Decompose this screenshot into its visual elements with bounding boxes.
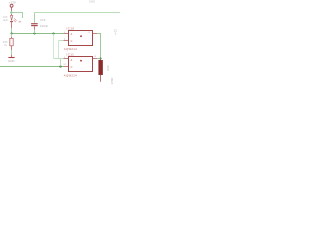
resistor R16 body (99, 60, 103, 75)
LED D15 triangle (10, 15, 12, 20)
LED D15 cathode bar (10, 21, 13, 22)
IC10 pin 2 stub (64, 40, 69, 42)
capacitor C15 bottom plate (31, 25, 38, 26)
wire box1 pin2 horizontal (59, 40, 64, 42)
svg-text:8: 8 (95, 56, 97, 58)
wire IC10 right pin (97, 34, 100, 59)
svg-text:100nF: 100nF (40, 24, 48, 28)
optocoupler IC11 box (69, 57, 93, 72)
resistor R15 bottom lead (11, 46, 13, 50)
IC11 pin 2 stub (64, 66, 69, 68)
svg-text:C: C (71, 66, 73, 69)
svg-text:470R: 470R (110, 77, 114, 84)
svg-text:-2: -2 (114, 32, 117, 36)
svg-text:GND: GND (89, 0, 95, 3)
junction dot bus B (59, 65, 61, 67)
bus A horizontal wire (12, 33, 64, 35)
wire down to bus B (60, 59, 62, 67)
LED cathode lead (11, 22, 13, 28)
svg-text:C: C (71, 40, 73, 43)
resistor R16 top lead (100, 59, 102, 61)
wire bus A junction down (53, 34, 55, 59)
svg-text:AQW214: AQW214 (64, 73, 77, 77)
C15 bottom lead (34, 26, 36, 29)
IC11 internal dot (80, 60, 82, 62)
supply pin (11, 7, 13, 10)
IC10 internal dot (80, 35, 82, 37)
svg-text:IC10: IC10 (67, 26, 75, 30)
svg-text:AQW214: AQW214 (64, 47, 77, 51)
wire C15 to bus A (34, 30, 36, 34)
svg-text:LED: LED (3, 19, 8, 22)
IC11 right pin stub (93, 58, 98, 60)
junction dot bus A / C15 (33, 32, 35, 34)
svg-text:11: 11 (63, 64, 66, 66)
svg-text:IC11: IC11 (67, 52, 75, 56)
wire R15 to GND (11, 50, 13, 55)
optocoupler IC10 box (69, 31, 93, 46)
svg-text:R16: R16 (106, 65, 110, 71)
resistor R16 bottom lead (100, 75, 102, 82)
junction dot bus A / LED (10, 32, 12, 34)
capacitor C15 top plate (31, 23, 38, 24)
bus B horizontal wire (0, 66, 64, 68)
junction dot right (99, 57, 101, 59)
LED arrows (14, 20, 16, 22)
IC10 right pin stub (93, 33, 98, 35)
resistor R15 body (10, 38, 13, 46)
tiny red mark near wire end (19, 21, 21, 23)
GND bar (8, 57, 14, 59)
IC11 pin 1 stub (64, 58, 69, 60)
svg-text:GND: GND (8, 59, 14, 63)
resistor R15 top lead green (11, 34, 13, 38)
wire IC11 right pin (97, 58, 100, 60)
wire to box2 pin1 horizontal (54, 58, 64, 60)
resistor R15 top pin (11, 37, 13, 38)
supply symbol +12V circle (10, 4, 13, 7)
LED D15 anode lead (11, 14, 13, 15)
wire +12V node to right and down stub (12, 13, 23, 19)
wire LED to bus A (11, 28, 13, 34)
svg-text:1k: 1k (4, 44, 7, 47)
wire box1 pin2 down (58, 41, 60, 59)
wire +12V node down to LED (11, 13, 13, 15)
svg-text:C15: C15 (40, 18, 46, 22)
IC10 pin 1 stub (64, 33, 69, 35)
junction dot bus A / branch (52, 32, 54, 34)
junction dot at +12V node (10, 11, 12, 13)
top wire to right edge (35, 12, 121, 14)
wire top to C15 (34, 13, 36, 23)
GND pin (11, 55, 13, 58)
